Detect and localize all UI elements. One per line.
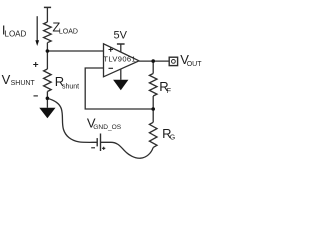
svg-text:F: F [167, 88, 171, 95]
svg-text:GND_OS: GND_OS [93, 124, 121, 131]
svg-text:V: V [2, 72, 11, 87]
svg-text:TLV9061: TLV9061 [103, 54, 136, 63]
svg-text:OUT: OUT [187, 61, 203, 68]
svg-text:LOAD: LOAD [5, 30, 27, 39]
svg-text:LOAD: LOAD [59, 29, 78, 36]
svg-text:shunt: shunt [62, 84, 79, 91]
svg-text:SHUNT: SHUNT [11, 80, 36, 87]
svg-text:G: G [170, 135, 175, 142]
svg-text:5V: 5V [114, 30, 128, 42]
